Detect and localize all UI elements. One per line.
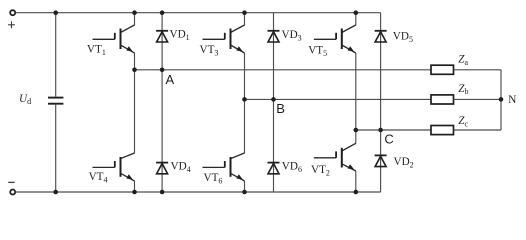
terminal DC-: [10, 190, 15, 195]
svg-text:B: B: [276, 101, 285, 116]
junction VT5 / top rail: [354, 10, 359, 15]
svg-text:Zb: Zb: [458, 83, 468, 96]
svg-text:VT6: VT6: [204, 172, 223, 186]
wire top DC+ rail: [16, 12, 381, 14]
wire VT2 emitter to -rail: [355, 171, 357, 192]
terminal DC+: [10, 10, 15, 15]
wire capacitor bottom lead: [55, 105, 57, 192]
diode VD5: [375, 31, 387, 42]
impedance Zc: [431, 126, 454, 135]
impedance Zb: [431, 95, 454, 104]
wire VD1 leg: [161, 13, 163, 70]
transistor VT6: [203, 153, 245, 181]
wire VT5 emitter to node C: [355, 53, 357, 130]
svg-text:N: N: [508, 94, 516, 106]
svg-text:VD6: VD6: [282, 161, 302, 175]
wire phase C line: [356, 129, 431, 131]
svg-text:VD1: VD1: [170, 29, 190, 43]
transistor VT2: [314, 143, 356, 171]
wire VT5 collector to +rail: [355, 13, 357, 26]
wire phase B line: [245, 98, 432, 100]
junction cap / top rail: [53, 10, 58, 15]
wire VT1 emitter to node A: [134, 53, 136, 70]
svg-text:VD5: VD5: [393, 30, 413, 44]
wire Zb to bus: [454, 98, 502, 100]
diode VD1: [156, 31, 168, 42]
node B: [242, 97, 247, 102]
svg-text:VD3: VD3: [282, 29, 302, 43]
svg-text:VT1: VT1: [87, 44, 106, 58]
junction VT1 / top rail: [132, 10, 137, 15]
svg-text:VT4: VT4: [89, 171, 108, 185]
svg-text:VT5: VT5: [308, 45, 327, 59]
svg-text:A: A: [166, 72, 175, 87]
transistor VT1: [93, 25, 135, 53]
transistor VT5: [314, 25, 356, 53]
svg-text:Ud: Ud: [19, 93, 31, 106]
wire VD5 leg: [380, 13, 382, 130]
diode VD6: [268, 163, 280, 174]
wire VT6 collector from node B: [244, 99, 246, 153]
wire VD6 leg: [273, 99, 275, 192]
wire VD4 leg: [161, 70, 163, 192]
node C: [354, 128, 359, 133]
wire VT4 emitter to -rail: [134, 181, 136, 192]
wire VT2 collector from node C: [355, 130, 357, 144]
label +: [8, 21, 15, 28]
svg-text:VD4: VD4: [171, 160, 191, 174]
wire phase A line: [135, 69, 432, 71]
svg-text:VT3: VT3: [200, 44, 219, 58]
junction VT3 / top rail: [242, 10, 247, 15]
node A: [132, 68, 137, 73]
diode VD2: [375, 155, 387, 166]
wire VD2 leg: [380, 130, 382, 192]
wire Za to bus: [454, 69, 502, 71]
junction VD1 / top rail: [160, 10, 165, 15]
wire VT1 collector to +rail: [134, 13, 136, 26]
junction VD5-VD2 / phase C: [378, 128, 383, 133]
junction VD3-VD6 / phase B: [271, 97, 276, 102]
wire Zc to bus: [454, 129, 502, 131]
node N: [499, 97, 504, 102]
wire neutral bus: [500, 70, 502, 130]
transistor VT3: [203, 25, 245, 53]
junction VD4 / bottom rail: [160, 190, 165, 195]
junction VD1-VD4 / phase A: [160, 68, 165, 73]
wire capacitor top lead: [55, 13, 57, 97]
svg-text:Za: Za: [458, 54, 468, 67]
wire VT6 emitter to -rail: [244, 181, 246, 192]
wire bottom DC- rail: [16, 191, 381, 193]
junction cap / bottom rail: [53, 190, 58, 195]
diode VD3: [268, 31, 280, 42]
junction VT6 / bottom rail: [242, 190, 247, 195]
wire VT3 collector to +rail: [244, 13, 246, 26]
transistor VT4: [93, 153, 135, 181]
junction VT4 / bottom rail: [132, 190, 137, 195]
impedance Za: [431, 65, 454, 74]
junction VT2 / bottom rail: [354, 190, 359, 195]
diode VD4: [156, 163, 168, 174]
svg-text:VD2: VD2: [394, 156, 414, 170]
svg-text:C: C: [384, 131, 393, 146]
svg-text:VT2: VT2: [311, 164, 330, 178]
label -: [8, 181, 14, 183]
wire VD3 leg: [273, 13, 275, 100]
wire VT3 emitter to node B: [244, 53, 246, 99]
svg-text:Zc: Zc: [458, 115, 468, 128]
wire VT4 collector from node A: [134, 70, 136, 154]
capacitor C (DC link): [48, 98, 63, 104]
